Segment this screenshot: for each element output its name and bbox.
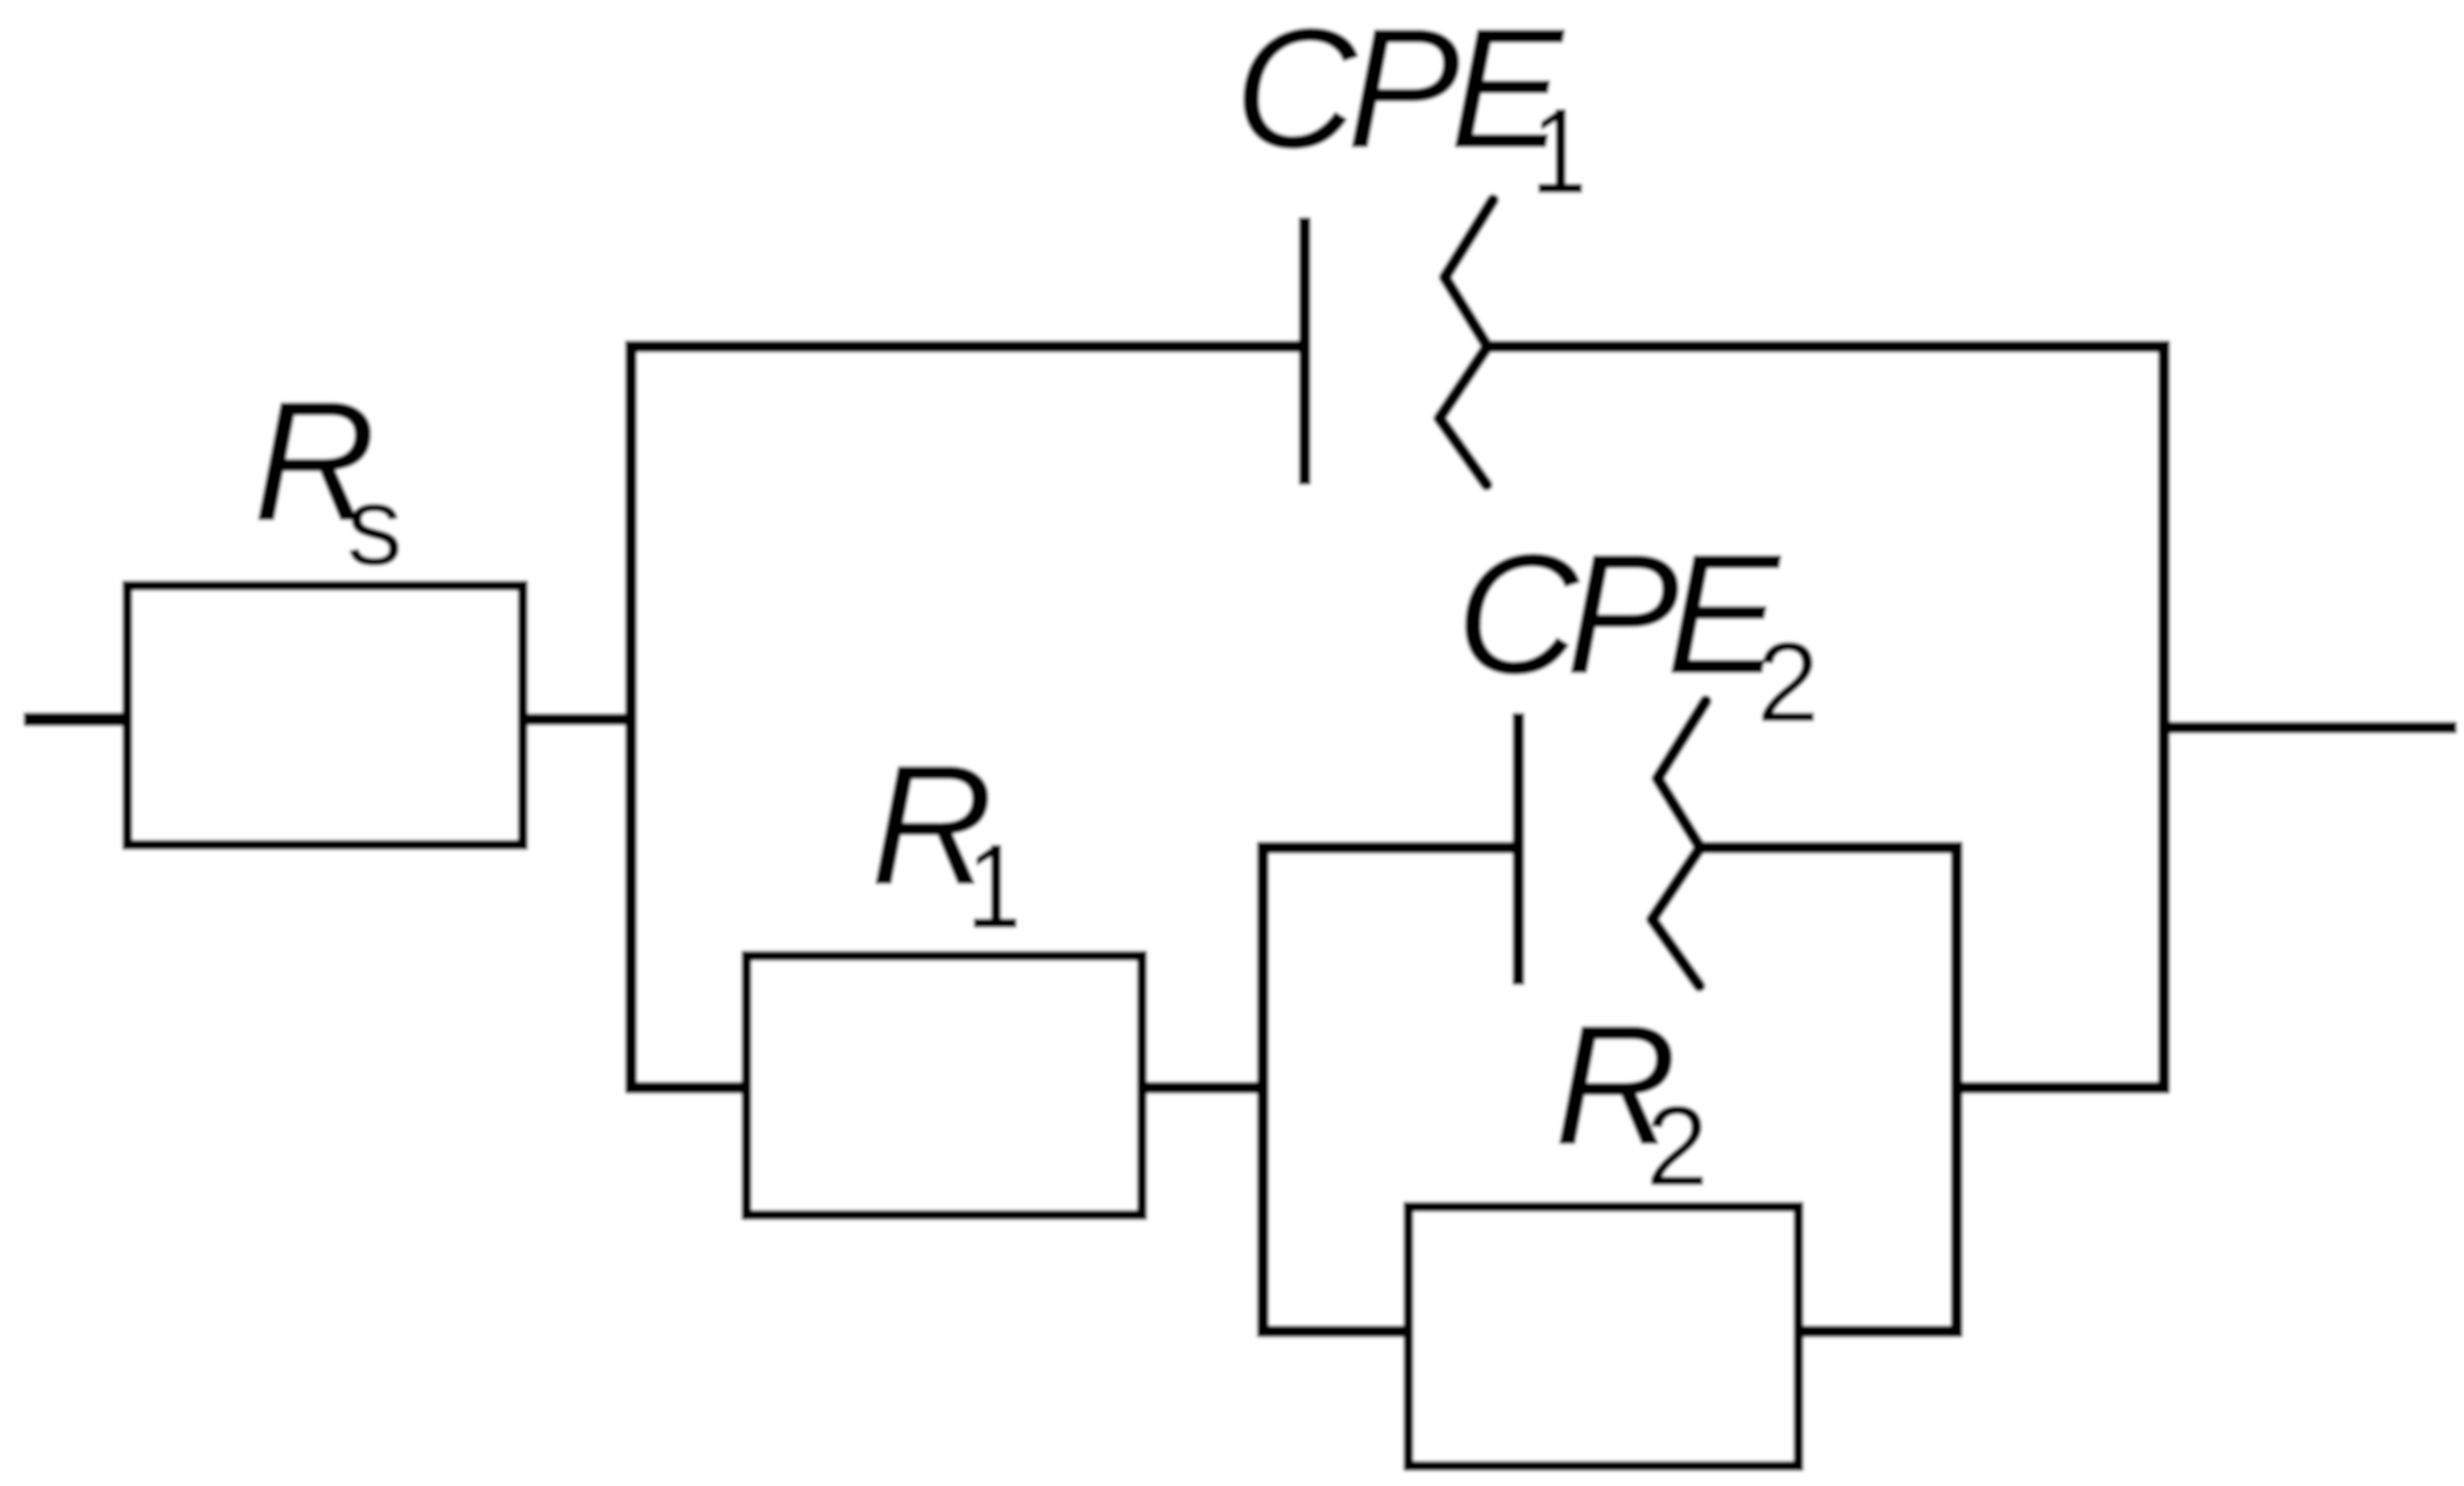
svg-text:R: R — [870, 729, 994, 920]
svg-text:CPE: CPE — [1456, 518, 1782, 709]
svg-text:2: 2 — [1646, 1084, 1708, 1210]
svg-text:CPE: CPE — [1234, 0, 1566, 184]
svg-text:s: s — [346, 464, 403, 589]
svg-text:2: 2 — [1757, 620, 1819, 746]
